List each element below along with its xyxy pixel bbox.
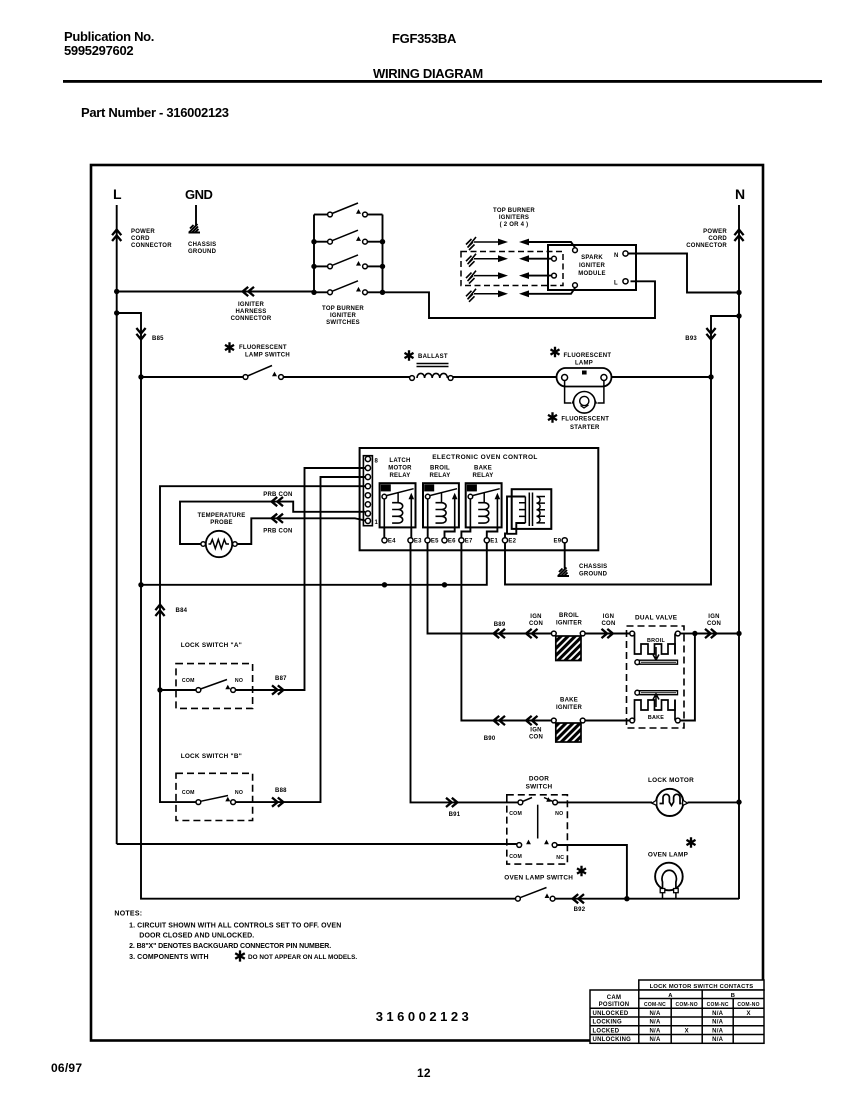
- wire fl-row-c: [453, 376, 557, 378]
- dashed box around igniters 2-3: [461, 252, 563, 286]
- terminal E3: [408, 538, 413, 543]
- junction ladder-right: [380, 239, 385, 244]
- IGN CON connector (broil in): [526, 629, 537, 638]
- svg-text:CON: CON: [601, 621, 615, 627]
- svg-text:LOCK MOTOR SWITCH CONTACTS: LOCK MOTOR SWITCH CONTACTS: [650, 984, 754, 990]
- terminal E9 + chassis ground: [562, 538, 567, 543]
- svg-text:DOOR CLOSED AND UNLOCKED.: DOOR CLOSED AND UNLOCKED.: [139, 933, 254, 940]
- IGN CON connector (bake in): [526, 716, 537, 725]
- EOC connector strip P8-P1: [363, 456, 372, 526]
- svg-text:316002123: 316002123: [376, 1009, 473, 1024]
- svg-text:Part Number - 316002123: Part Number - 316002123: [81, 105, 229, 120]
- svg-text:COM: COM: [182, 790, 195, 796]
- fluorescent starter: [565, 381, 604, 404]
- svg-text:1. CIRCUIT SHOWN WITH ALL CON: 1. CIRCUIT SHOWN WITH ALL CONTROLS SET T…: [129, 923, 341, 930]
- svg-text:1: 1: [375, 520, 379, 526]
- top burner igniter 4 spark gap: [466, 289, 476, 302]
- svg-text:LOCK SWITCH "B": LOCK SWITCH "B": [181, 753, 242, 760]
- svg-text:X: X: [685, 1028, 689, 1034]
- broil valve solenoid: [630, 631, 635, 636]
- terminal E1: [484, 538, 489, 543]
- fluorescent lamp: [557, 368, 612, 387]
- svg-text:IGN: IGN: [530, 728, 541, 734]
- top burner igniter 2 spark gap: [466, 254, 476, 267]
- svg-text:COM-NO: COM-NO: [737, 1002, 759, 1008]
- junction ladder-right: [380, 264, 385, 269]
- svg-text:CORD: CORD: [131, 236, 150, 242]
- wire sw3-right: [368, 265, 383, 267]
- svg-text:E2: E2: [508, 539, 516, 545]
- wire gnd-stub: [195, 205, 197, 225]
- svg-text:FGF353BA: FGF353BA: [392, 31, 457, 46]
- diagram border frame: [91, 165, 763, 1041]
- svg-text:3. COMPONENTS WITH: 3. COMPONENTS WITH: [129, 954, 209, 961]
- svg-text:TOP BURNER: TOP BURNER: [322, 306, 364, 312]
- svg-text:SPARK: SPARK: [581, 255, 603, 261]
- wire bake-valve: [585, 720, 630, 722]
- svg-text:IGNITER: IGNITER: [238, 302, 265, 308]
- svg-text:8: 8: [375, 459, 379, 465]
- terminal E6: [442, 538, 447, 543]
- header rule: [63, 80, 822, 83]
- svg-text:K1: K1: [468, 486, 475, 492]
- wire K1-E1: [487, 527, 498, 537]
- relay K2 broil: [423, 483, 459, 527]
- oven lamp legs: [663, 893, 676, 899]
- svg-text:06/97: 06/97: [51, 1061, 82, 1075]
- junction ladder-left: [311, 290, 316, 295]
- wire fl-row-b: [284, 376, 411, 378]
- svg-text:PRB CON: PRB CON: [263, 492, 292, 498]
- door switch lower pole COM-NC: [517, 843, 522, 848]
- junction B84 / lockA: [157, 687, 162, 692]
- svg-text:IGNITERS: IGNITERS: [499, 215, 529, 221]
- svg-text:B: B: [731, 993, 735, 999]
- junction neutral / fluorescent: [708, 374, 713, 379]
- wire sw1-right: [368, 214, 383, 216]
- wire fl-row-a: [141, 376, 243, 378]
- svg-text:RELAY: RELAY: [429, 473, 450, 479]
- svg-text:E6: E6: [448, 539, 456, 545]
- wire lockB-out: [236, 477, 366, 802]
- spark igniter module U1: [548, 245, 636, 290]
- svg-text:LOCK MOTOR: LOCK MOTOR: [648, 777, 694, 784]
- svg-text:CON: CON: [529, 621, 543, 627]
- svg-text:FLUORESCENT: FLUORESCENT: [561, 417, 609, 423]
- svg-text:DO NOT APPEAR ON ALL MODELS.: DO NOT APPEAR ON ALL MODELS.: [248, 954, 357, 961]
- svg-text:WIRING DIAGRAM: WIRING DIAGRAM: [373, 66, 483, 81]
- wire fl-row-d: [612, 376, 712, 378]
- svg-text:IGNITER: IGNITER: [556, 621, 583, 627]
- junction N / lock motor: [736, 799, 741, 804]
- relay K1 bake: [466, 483, 502, 527]
- wire L-drop: [116, 205, 118, 844]
- svg-text:L: L: [113, 186, 122, 202]
- wire broil-valve: [585, 633, 630, 635]
- connector B91: [446, 798, 457, 807]
- wire E5-broil: [428, 543, 552, 634]
- ballast: [410, 376, 415, 381]
- wire B84-feeder: [160, 486, 365, 802]
- wire ig2: [529, 258, 552, 260]
- svg-text:BALLAST: BALLAST: [418, 354, 448, 360]
- terminal E2: [502, 538, 507, 543]
- svg-text:TEMPERATURE: TEMPERATURE: [198, 513, 246, 519]
- svg-text:N/A: N/A: [649, 1028, 661, 1034]
- svg-text:E7: E7: [465, 539, 473, 545]
- terminal E7: [459, 538, 464, 543]
- svg-text:B92: B92: [574, 907, 586, 913]
- svg-text:IGNITER: IGNITER: [556, 705, 583, 711]
- wire N-drop: [738, 205, 740, 899]
- svg-text:IGNITER: IGNITER: [579, 263, 606, 269]
- wire sw2-right: [368, 241, 383, 243]
- transformer T1: [512, 489, 552, 529]
- wire K4-E4: [383, 527, 385, 537]
- svg-text:GROUND: GROUND: [579, 572, 608, 578]
- junction L / branch to B85: [114, 310, 119, 315]
- svg-text:BROIL: BROIL: [559, 613, 579, 619]
- svg-text:N/A: N/A: [712, 1011, 724, 1017]
- terminal E5: [425, 538, 430, 543]
- igniter harness connector chevron: [243, 287, 254, 296]
- svg-text:K2: K2: [425, 486, 432, 492]
- svg-text:CONNECTOR: CONNECTOR: [131, 243, 172, 249]
- wire L-doorCOM: [117, 843, 517, 845]
- svg-text:RELAY: RELAY: [472, 473, 493, 479]
- svg-text:LOCKED: LOCKED: [593, 1028, 620, 1034]
- junction N / E2 branch: [736, 313, 741, 318]
- svg-text:LOCKING: LOCKING: [593, 1020, 622, 1026]
- top burner igniter switches: [314, 215, 383, 293]
- svg-text:COM-NC: COM-NC: [644, 1002, 666, 1008]
- lock motor switch contacts table: [590, 980, 764, 1043]
- svg-text:NC: NC: [556, 855, 564, 861]
- svg-text:OVEN LAMP SWITCH: OVEN LAMP SWITCH: [504, 875, 573, 882]
- svg-text:A: A: [668, 993, 673, 999]
- IGN CON connector (broil out): [602, 629, 613, 638]
- svg-text:E9: E9: [553, 539, 561, 545]
- svg-text:CONNECTOR: CONNECTOR: [686, 243, 727, 249]
- junction ladder-left: [311, 264, 316, 269]
- power cord connector (N): [734, 230, 743, 241]
- svg-text:B85: B85: [152, 336, 164, 342]
- svg-text:POWER: POWER: [703, 229, 727, 235]
- junction ladder-left: [311, 239, 316, 244]
- PRB CON connector 2: [272, 514, 283, 523]
- broil valve armature: [635, 660, 640, 665]
- junction lampjoin: [624, 896, 629, 901]
- junction lampfeeder / fluorescent: [138, 374, 143, 379]
- connector B93 on neutral feeder: [706, 328, 715, 339]
- svg-text:IGN: IGN: [603, 614, 614, 620]
- svg-text:B84: B84: [176, 608, 188, 614]
- junction lampfeeder / left rail: [138, 582, 143, 587]
- junction N / module: [736, 290, 741, 295]
- connector B89: [494, 629, 505, 638]
- door switch upper pole COM-NO: [518, 800, 523, 805]
- svg-text:GND: GND: [185, 187, 213, 202]
- wire valve-N: [680, 634, 737, 721]
- svg-text:POWER: POWER: [131, 229, 155, 235]
- svg-text:IGN: IGN: [708, 614, 719, 620]
- svg-text:E1: E1: [490, 539, 498, 545]
- connector B85: [136, 328, 145, 339]
- wire sw4-left: [314, 291, 328, 293]
- svg-text:B89: B89: [494, 622, 506, 628]
- svg-text:L: L: [614, 281, 618, 287]
- junction L / igniter-switch row: [114, 289, 119, 294]
- wire L-lamp-feeder: [117, 313, 517, 899]
- svg-text:LAMP: LAMP: [575, 361, 593, 367]
- relay K4 latch motor: [380, 483, 416, 527]
- svg-text:B93: B93: [685, 336, 697, 342]
- wire ig1: [529, 242, 575, 248]
- svg-text:N: N: [614, 253, 619, 259]
- svg-text:HARNESS: HARNESS: [235, 309, 266, 315]
- wire sw-to-moduleL: [383, 281, 656, 318]
- connector B84: [155, 605, 164, 616]
- svg-text:LATCH: LATCH: [389, 458, 410, 464]
- PRB CON connector 1: [272, 497, 283, 506]
- svg-text:OVEN LAMP: OVEN LAMP: [648, 852, 689, 859]
- wire K2-E6: [445, 527, 455, 537]
- wire T1-top: [505, 497, 525, 538]
- connector B92: [573, 894, 584, 903]
- connector B87: [272, 685, 283, 694]
- wire ig4: [529, 288, 575, 294]
- wire E3-door: [411, 543, 518, 803]
- svg-text:DUAL VALVE: DUAL VALVE: [635, 615, 678, 622]
- svg-text:STARTER: STARTER: [570, 425, 600, 431]
- wire sw3-left: [314, 265, 328, 267]
- svg-text:BAKE: BAKE: [474, 466, 492, 472]
- svg-text:FLUORESCENT: FLUORESCENT: [239, 345, 287, 351]
- wire moduleN: [628, 254, 739, 293]
- wire L-row: [117, 291, 314, 293]
- svg-text:BAKE: BAKE: [648, 715, 664, 721]
- wire E7-bake: [461, 543, 551, 721]
- fluorescent lamp switch: [243, 375, 248, 380]
- svg-text:COM-NO: COM-NO: [676, 1002, 698, 1008]
- svg-text:12: 12: [417, 1066, 431, 1080]
- terminal E4: [382, 538, 387, 543]
- svg-text:CON: CON: [707, 621, 721, 627]
- svg-text:FLUORESCENT: FLUORESCENT: [564, 353, 612, 359]
- connector B88: [272, 798, 283, 807]
- wire broil-out: [680, 633, 695, 635]
- junction rail / E4: [382, 582, 387, 587]
- svg-text:LAMP SWITCH: LAMP SWITCH: [245, 353, 290, 359]
- svg-text:5995297602: 5995297602: [64, 43, 133, 58]
- wire lockA-com: [160, 689, 196, 691]
- svg-text:CONNECTOR: CONNECTOR: [231, 316, 272, 322]
- svg-text:N/A: N/A: [712, 1028, 724, 1034]
- svg-text:Publication No.: Publication No.: [64, 29, 154, 44]
- wire ig3: [529, 275, 552, 277]
- svg-text:CAM: CAM: [607, 995, 621, 1001]
- connector B90: [494, 716, 505, 725]
- junction N / valve: [736, 631, 741, 636]
- svg-text:TOP BURNER: TOP BURNER: [493, 208, 535, 214]
- svg-text:NOTES:: NOTES:: [114, 911, 142, 918]
- wire lamprow: [627, 898, 739, 900]
- svg-text:E5: E5: [431, 539, 439, 545]
- wire K4-E3: [410, 527, 412, 537]
- svg-text:NO: NO: [555, 811, 563, 817]
- svg-text:PROBE: PROBE: [210, 520, 233, 526]
- svg-text:POSITION: POSITION: [599, 1002, 630, 1008]
- svg-text:B87: B87: [275, 676, 287, 682]
- svg-text:SWITCH: SWITCH: [526, 783, 553, 790]
- svg-text:ELECTRONIC OVEN CONTROL: ELECTRONIC OVEN CONTROL: [432, 454, 538, 461]
- svg-text:CHASSIS: CHASSIS: [188, 242, 216, 248]
- bake valve solenoid: [630, 718, 635, 723]
- junction valve-join: [692, 631, 697, 636]
- wire sw4-right: [368, 291, 383, 293]
- IGN CON connector (valve out): [705, 629, 716, 638]
- wire lampswitch-out: [555, 898, 627, 900]
- junction ladder-right: [380, 290, 385, 295]
- bake valve armature: [635, 690, 640, 695]
- wire sw1-left: [314, 214, 328, 216]
- svg-text:COM: COM: [509, 811, 522, 817]
- wire lockA-out: [236, 468, 366, 690]
- svg-text:COM: COM: [509, 854, 522, 860]
- svg-text:B88: B88: [275, 788, 287, 794]
- svg-text:X: X: [746, 1011, 750, 1017]
- svg-text:N/A: N/A: [712, 1037, 724, 1043]
- svg-text:( 2 OR 4 ): ( 2 OR 4 ): [500, 222, 529, 228]
- wire door-lockmotor: [558, 801, 653, 803]
- svg-text:COM-NC: COM-NC: [707, 1002, 729, 1008]
- svg-text:COM: COM: [182, 678, 195, 684]
- wire L-rail: [141, 543, 487, 585]
- svg-text:BROIL: BROIL: [647, 638, 665, 644]
- wire sw2-left: [314, 241, 328, 243]
- wire probe-left: [180, 502, 365, 544]
- top burner igniter 1 spark gap: [466, 237, 476, 250]
- svg-text:RELAY: RELAY: [389, 473, 410, 479]
- svg-text:B91: B91: [449, 812, 461, 818]
- svg-text:PRB CON: PRB CON: [263, 529, 292, 535]
- svg-text:IGNITER: IGNITER: [330, 313, 357, 319]
- svg-text:SWITCHES: SWITCHES: [326, 320, 360, 326]
- top burner igniter 3 spark gap: [466, 271, 476, 284]
- svg-text:MOTOR: MOTOR: [388, 466, 412, 472]
- svg-text:UNLOCKING: UNLOCKING: [593, 1037, 632, 1043]
- svg-text:BAKE: BAKE: [560, 698, 578, 704]
- svg-text:NO: NO: [235, 790, 243, 796]
- wire E9-gnd: [564, 543, 566, 569]
- oven lamp: [687, 837, 696, 847]
- svg-text:LOCK SWITCH "A": LOCK SWITCH "A": [181, 642, 242, 649]
- svg-text:E3: E3: [414, 539, 422, 545]
- svg-text:IGN: IGN: [530, 614, 541, 620]
- svg-text:N/A: N/A: [712, 1020, 724, 1026]
- wire K2-E5: [427, 527, 429, 537]
- svg-text:K4: K4: [382, 486, 389, 492]
- svg-text:GROUND: GROUND: [188, 249, 217, 255]
- chassis ground symbol (GND): [189, 224, 201, 233]
- wire doorNC-lamp: [557, 845, 627, 899]
- svg-text:N/A: N/A: [649, 1020, 661, 1026]
- power cord connector (L): [112, 230, 121, 241]
- svg-text:BROIL: BROIL: [430, 466, 450, 472]
- wire actuator: [537, 805, 539, 839]
- svg-text:E4: E4: [388, 539, 396, 545]
- svg-text:B90: B90: [484, 736, 496, 742]
- svg-text:NO: NO: [235, 678, 243, 684]
- wire T1-bot: [507, 523, 526, 534]
- svg-text:2. B8"X" DENOTES BACKGUARD CO: 2. B8"X" DENOTES BACKGUARD CONNECTOR PIN…: [129, 943, 331, 950]
- svg-text:N: N: [735, 186, 745, 202]
- svg-text:UNLOCKED: UNLOCKED: [593, 1011, 629, 1017]
- svg-text:CHASSIS: CHASSIS: [579, 564, 607, 570]
- wire K1-E7: [461, 527, 470, 537]
- svg-text:DOOR: DOOR: [529, 776, 549, 783]
- oven lamp switch: [577, 866, 586, 876]
- junction rail / E6: [442, 582, 447, 587]
- wire probe-right: [237, 518, 365, 544]
- svg-text:N/A: N/A: [649, 1011, 661, 1017]
- svg-text:MODULE: MODULE: [578, 271, 606, 277]
- svg-text:N/A: N/A: [649, 1037, 661, 1043]
- wire lockmotor-N: [688, 801, 739, 803]
- wire N-E2: [505, 316, 739, 585]
- svg-text:CON: CON: [529, 735, 543, 741]
- electronic oven control (EOC) box: [360, 448, 599, 550]
- svg-text:CORD: CORD: [708, 236, 727, 242]
